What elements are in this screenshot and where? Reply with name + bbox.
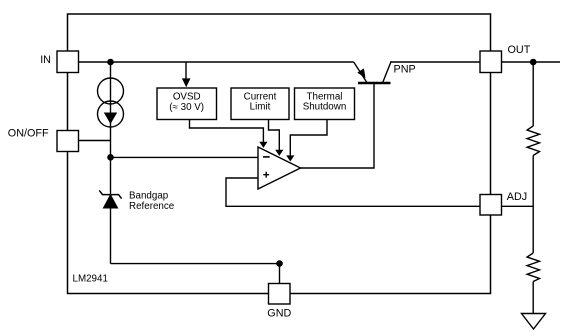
pin box IN: [57, 51, 79, 73]
op-amp inverting input marker (minus): [263, 156, 270, 158]
transistor Q1 collector lead: [383, 62, 481, 83]
op-amp non-inverting input marker (plus): [263, 172, 269, 178]
svg-text:Shutdown: Shutdown: [303, 101, 347, 112]
svg-text:PNP: PNP: [394, 63, 416, 75]
wire divider top: [532, 62, 534, 126]
node current-source/bandgap junction (dot): [107, 154, 114, 161]
svg-text:OUT: OUT: [508, 44, 531, 56]
node IN-rail junction (dot): [107, 59, 114, 66]
wire OVSD output to op-amp: [190, 120, 264, 143]
transistor Q1 emitter arrowhead: [357, 68, 365, 78]
arrowhead Thermal Shutdown into op-amp: [286, 155, 294, 161]
wire divider middle: [532, 156, 534, 254]
transistor Q1 emitter lead: [354, 62, 367, 83]
svg-text:LM2941: LM2941: [73, 273, 108, 284]
pin box GND: [269, 284, 291, 305]
current source I1: [98, 78, 124, 127]
arrowhead OVSD into op-amp: [259, 142, 267, 148]
zener diode bandgap reference: [99, 190, 121, 208]
pin box ON/OFF: [57, 131, 79, 152]
wire non-inverting feedback from ADJ: [226, 178, 480, 206]
current source arrow: [104, 113, 117, 125]
arrowhead Current Limit into op-amp: [275, 150, 283, 156]
wire current source branch: [110, 62, 112, 157]
pin box ADJ: [480, 195, 502, 216]
svg-text:Limit: Limit: [250, 101, 271, 112]
resistor R2: [527, 253, 539, 282]
wire op-amp output to PNP base: [301, 84, 375, 168]
node GND junction (dot): [276, 260, 283, 267]
block OVSD: [157, 88, 217, 120]
wire ON/OFF to current-source branch: [79, 140, 111, 142]
wire Current Limit output to op-amp: [269, 120, 280, 151]
svg-text:GND: GND: [267, 308, 291, 320]
op-amp U1: [258, 147, 301, 189]
wire OUT to right edge: [502, 61, 561, 63]
arrowhead into OVSD: [182, 78, 191, 87]
wire GND node to GND pin: [279, 264, 281, 284]
ground symbol: [522, 314, 546, 330]
block Thermal Shutdown: [295, 88, 355, 120]
node OUT/divider junction (dot): [530, 59, 537, 66]
wire bandgap branch: [110, 157, 112, 263]
block Current Limit: [231, 88, 289, 120]
wire OVSD tap: [185, 62, 187, 79]
wire IN rail: [79, 61, 354, 63]
IC boundary box: [68, 14, 491, 294]
svg-text:IN: IN: [40, 54, 51, 66]
transistor Q1 PNP base bar: [358, 82, 391, 84]
resistor R1: [527, 126, 539, 156]
wire inverting input: [111, 156, 259, 158]
svg-text:Reference: Reference: [129, 201, 175, 212]
svg-text:ON/OFF: ON/OFF: [8, 127, 49, 139]
wire bandgap to GND node: [111, 263, 280, 265]
wire divider bottom: [532, 282, 534, 314]
pin box OUT: [480, 51, 502, 73]
wire Thermal Shutdown output to op-amp: [290, 120, 327, 156]
wire ADJ to divider: [502, 205, 534, 207]
svg-text:OVSD: OVSD: [173, 92, 201, 103]
svg-text:ADJ: ADJ: [507, 191, 527, 203]
svg-text:(≈ 30 V): (≈ 30 V): [169, 102, 204, 113]
